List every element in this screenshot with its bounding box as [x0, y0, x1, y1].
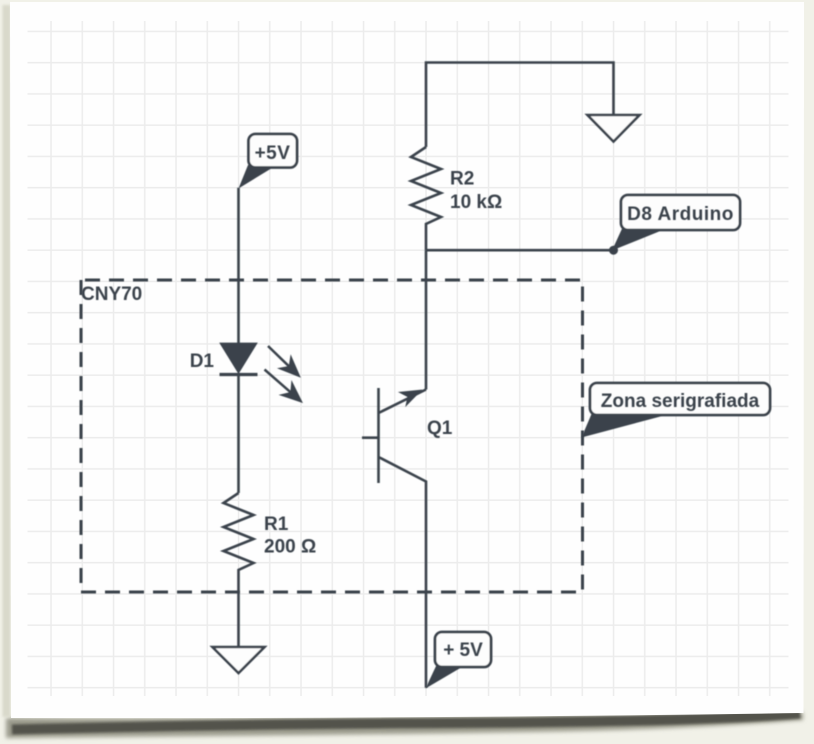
svg-text:Zona serigrafiada: Zona serigrafiada [601, 391, 760, 412]
svg-text:D8 Arduino: D8 Arduino [627, 204, 734, 225]
svg-text:CNY70: CNY70 [81, 284, 142, 305]
svg-text:+5V: +5V [255, 143, 291, 164]
svg-text:R1: R1 [264, 514, 289, 535]
svg-text:D1: D1 [190, 351, 215, 372]
svg-text:+ 5V: + 5V [443, 640, 483, 661]
svg-text:200 Ω: 200 Ω [264, 537, 316, 558]
svg-text:10 kΩ: 10 kΩ [450, 192, 502, 213]
svg-text:Q1: Q1 [427, 418, 453, 439]
svg-text:R2: R2 [450, 169, 474, 190]
